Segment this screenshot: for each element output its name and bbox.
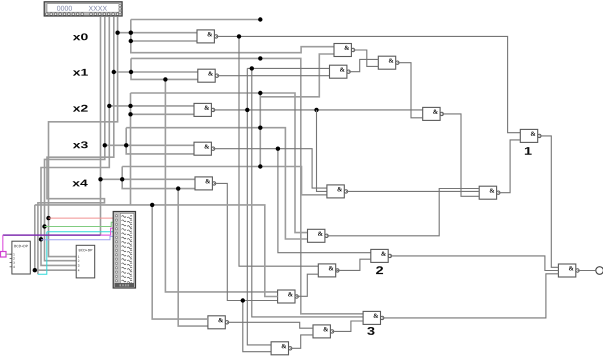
NAND UK (3-input)	[558, 264, 603, 277]
net UM output	[290, 335, 313, 348]
net U5 output	[214, 183, 278, 351]
net x2 bus wire	[39, 16, 334, 265]
net U3 output branch to UF	[317, 110, 327, 191]
input label x0	[73, 33, 88, 40]
net UF output	[346, 190, 479, 192]
net trunk y=205	[33, 203, 278, 319]
input label x1	[73, 69, 88, 76]
NAND UL (3-input)	[278, 290, 299, 303]
NAND UF (3-input)	[327, 185, 348, 198]
NAND UD	[423, 107, 444, 120]
BCD decoder U22	[10, 241, 31, 274]
net U2 output	[217, 75, 330, 77]
net UH output	[327, 189, 480, 236]
net UQ output	[382, 274, 558, 318]
BCD decoder U23	[76, 245, 95, 278]
net UB output	[349, 59, 379, 71]
hex display U21	[44, 2, 122, 16]
net UD output	[442, 114, 479, 196]
NAND U3 (x2 inverter)	[194, 103, 215, 116]
net U4 output	[213, 147, 371, 253]
NAND UI	[371, 249, 392, 274]
segment wire red	[49, 217, 116, 219]
segment wire cyan	[38, 232, 116, 275]
NAND UG (3-input)	[479, 186, 500, 199]
net UK output to pin	[578, 270, 596, 272]
net U3 output	[213, 66, 423, 345]
NAND U5 (x4 inverter)	[195, 177, 216, 190]
input pin P1	[1, 252, 12, 258]
NAND U1 (x0 inverter)	[197, 30, 218, 43]
NAND UM	[271, 342, 292, 355]
NAND UN	[208, 316, 229, 329]
net UI output	[390, 256, 559, 271]
NAND U4 (x3 inverter)	[194, 142, 215, 155]
NAND UJ	[318, 264, 339, 277]
input label x2	[73, 105, 88, 112]
net UL output	[296, 274, 318, 296]
segment wire blue	[41, 236, 116, 239]
input label x3	[73, 141, 88, 148]
NAND UC	[378, 56, 399, 69]
net UJ output	[337, 259, 371, 270]
NAND UQ (3-input)	[363, 311, 384, 335]
net UC output	[397, 63, 422, 118]
NAND UH	[308, 229, 329, 242]
NAND U2 (x1 inverter)	[198, 69, 219, 82]
net x0 bus wire	[46, 16, 334, 256]
NAND UB	[330, 65, 351, 78]
segment wire green	[45, 222, 116, 226]
segment driver U24	[113, 212, 135, 289]
net UE output	[539, 136, 558, 267]
net x1 bus wire	[38, 16, 363, 314]
net U1 output	[216, 34, 520, 266]
NAND UE	[520, 129, 541, 154]
net UA output	[353, 50, 378, 66]
net UR output	[332, 321, 363, 331]
net UG output	[498, 140, 520, 193]
input label x4	[72, 180, 87, 187]
NAND UR	[313, 325, 334, 338]
junction rail x=260	[258, 91, 262, 169]
net UN output	[227, 322, 313, 328]
net x4 bus wire	[98, 16, 327, 326]
NAND UA	[334, 44, 355, 57]
segment wire purple	[3, 228, 116, 251]
net x3 bus wire	[42, 16, 307, 261]
